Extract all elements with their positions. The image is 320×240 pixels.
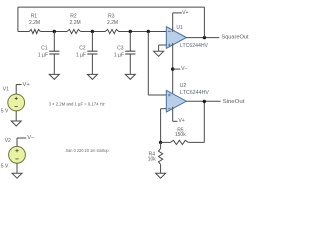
- resistor R1: [29, 29, 40, 33]
- resistor R5: [161, 141, 171, 143]
- node A junction: [53, 30, 56, 33]
- wire main row into R1: [18, 31, 29, 33]
- junction SquareOut feedback: [203, 36, 206, 39]
- svg-text:V+: V+: [182, 10, 189, 16]
- svg-text:V–: V–: [27, 135, 35, 141]
- wire U1 + input to ground: [159, 44, 167, 46]
- svg-text:R3: R3: [108, 13, 115, 19]
- svg-text:2.2M: 2.2M: [29, 20, 40, 26]
- ground (R4): [156, 173, 166, 178]
- svg-text:V+: V+: [23, 82, 31, 88]
- svg-text:V+: V+: [178, 118, 185, 124]
- wire U2 output: [186, 100, 220, 102]
- wire R1 to node A: [40, 31, 67, 33]
- svg-text:.tran 0 220 20 1m startup: .tran 0 220 20 1m startup: [65, 148, 109, 153]
- svg-text:10k: 10k: [148, 157, 157, 163]
- svg-text:3 × 2.2M and 1 µF = 0.174 Hz: 3 × 2.2M and 1 µF = 0.174 Hz: [49, 101, 106, 106]
- svg-text:C1: C1: [41, 46, 48, 52]
- voltage source V2: [9, 146, 26, 163]
- svg-text:LTC6244HV: LTC6244HV: [180, 43, 209, 49]
- ground (V1): [11, 121, 21, 126]
- junction R4/R5: [159, 141, 162, 144]
- svg-text:V1: V1: [3, 87, 9, 93]
- svg-text:SquareOut: SquareOut: [221, 34, 249, 40]
- wire V- label stub: [173, 68, 181, 70]
- wire R3 to U1 inverting input: [119, 31, 167, 33]
- wire feedback up to top rail: [203, 7, 205, 37]
- wire U2 + input branch horizontal: [148, 94, 166, 96]
- ground (V2): [12, 173, 22, 178]
- resistor R4: [160, 142, 162, 148]
- svg-text:150k: 150k: [175, 132, 186, 138]
- wire U2 V+ stub: [172, 107, 174, 121]
- svg-text:SineOut: SineOut: [223, 99, 245, 105]
- ground: [49, 74, 59, 79]
- node D junction (to U2 +): [147, 30, 150, 33]
- node C junction (C3): [129, 30, 132, 33]
- svg-text:V–: V–: [181, 66, 187, 72]
- wire R2 to node B: [81, 31, 106, 33]
- svg-text:5 V: 5 V: [1, 163, 9, 169]
- capacitor C1: [49, 32, 59, 75]
- wire top feedback rail: [18, 6, 205, 8]
- wire U1 V- to U2 V-: [172, 43, 174, 95]
- wire R5 to output: [188, 141, 204, 143]
- svg-text:R2: R2: [70, 13, 77, 19]
- svg-text:2.2M: 2.2M: [70, 20, 81, 26]
- resistor R2: [67, 29, 81, 33]
- op-amp U1: [166, 27, 186, 49]
- junction SineOut: [203, 100, 206, 103]
- wire U2 + input branch vertical: [147, 32, 149, 96]
- wire left feedback drop: [17, 7, 19, 31]
- svg-text:U1: U1: [176, 25, 183, 31]
- ground (U1 +): [154, 51, 164, 56]
- wire V2 plus stub: [16, 138, 18, 146]
- wire V2 to ground: [16, 163, 18, 173]
- capacitor C2: [87, 32, 97, 75]
- resistor R3: [105, 29, 118, 33]
- svg-text:C3: C3: [117, 46, 124, 52]
- svg-text:5 V: 5 V: [1, 109, 9, 115]
- wire U2 - input loop: [161, 108, 167, 110]
- svg-text:1 µF: 1 µF: [114, 53, 124, 59]
- svg-text:V2: V2: [5, 138, 11, 144]
- wire V1 plus stub: [15, 85, 17, 95]
- svg-text:U2: U2: [180, 83, 187, 89]
- junction V-: [171, 67, 174, 70]
- capacitor C3: [125, 32, 135, 75]
- voltage source V1: [8, 94, 25, 111]
- svg-text:LTC6244HV: LTC6244HV: [180, 90, 210, 96]
- op-amp U2: [166, 90, 186, 112]
- svg-text:1 µF: 1 µF: [38, 53, 48, 59]
- wire U1 output: [186, 37, 219, 39]
- ground: [87, 74, 97, 79]
- wire U1 V+ stub: [172, 13, 174, 32]
- svg-text:C2: C2: [79, 46, 86, 52]
- ground: [125, 74, 135, 79]
- svg-text:R1: R1: [31, 13, 38, 19]
- svg-text:1 µF: 1 µF: [76, 53, 86, 59]
- wire V1 to ground: [15, 111, 17, 121]
- svg-text:2.2M: 2.2M: [107, 20, 118, 26]
- node B junction: [91, 30, 94, 33]
